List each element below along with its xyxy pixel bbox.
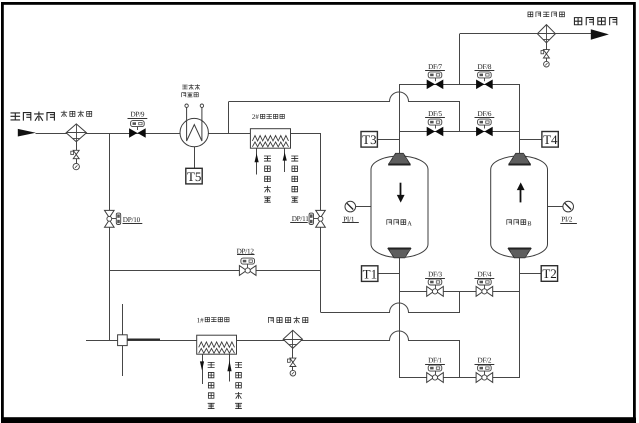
svg-text:1#: 1#: [197, 316, 205, 324]
svg-text:T3: T3: [362, 132, 376, 147]
svg-text:DP/11: DP/11: [292, 215, 310, 223]
svg-text:DF/1: DF/1: [428, 357, 442, 365]
svg-text:DF/2: DF/2: [478, 357, 492, 365]
svg-text:B: B: [527, 220, 531, 227]
svg-text:DF/8: DF/8: [478, 63, 492, 71]
svg-text:DF/5: DF/5: [428, 110, 442, 118]
svg-text:T4: T4: [543, 132, 558, 147]
svg-text:DP/9: DP/9: [131, 111, 145, 119]
svg-text:A: A: [407, 220, 412, 227]
svg-text:T2: T2: [542, 266, 556, 281]
svg-text:DF/6: DF/6: [478, 110, 492, 118]
svg-text:T1: T1: [363, 266, 377, 281]
svg-text:DP/10: DP/10: [123, 216, 141, 224]
svg-text:DF/4: DF/4: [478, 271, 492, 279]
svg-text:DF/7: DF/7: [428, 63, 442, 71]
svg-text:T5: T5: [187, 169, 201, 184]
svg-text:2#: 2#: [252, 113, 260, 121]
svg-text:PI/2: PI/2: [561, 216, 573, 224]
svg-text:DF/3: DF/3: [428, 271, 442, 279]
